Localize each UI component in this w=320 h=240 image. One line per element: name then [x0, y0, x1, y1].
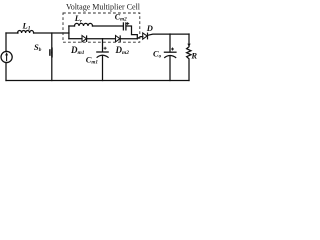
capacitor Cm2 plus sign [126, 22, 129, 25]
diode Dm1 [82, 35, 87, 42]
wire: left rail lower [5, 63, 7, 81]
diode Dm2 [116, 35, 121, 42]
transistor Sb arrow [51, 51, 53, 54]
wire: bottom rail [6, 80, 189, 82]
svg-text:R: R [190, 51, 197, 61]
svg-text:Lr: Lr [74, 13, 83, 24]
wire: right rail upper [188, 34, 190, 44]
transistor Sb gate bar [50, 48, 52, 58]
inductor Lr [75, 23, 93, 26]
wire: Cm1 branch lower [102, 55, 104, 80]
capacitor Co plus sign [171, 48, 174, 51]
wire: Co branch lower [169, 56, 171, 81]
wire: cell top branch lead [69, 25, 75, 27]
wire: left rail upper [5, 33, 7, 52]
current source arrow [5, 52, 8, 61]
svg-text:Cm1: Cm1 [86, 54, 99, 65]
svg-text:L1: L1 [22, 20, 31, 31]
wire: Cm2 right to corner, down to middle branch [126, 26, 137, 39]
svg-text:D: D [146, 23, 153, 33]
svg-text:Voltage Multiplier Cell: Voltage Multiplier Cell [66, 3, 141, 12]
wire: middle branch left [69, 38, 82, 40]
dashed box: voltage multiplier cell boundary [63, 13, 140, 42]
capacitor Cm1 plates [96, 52, 109, 58]
wire: top rail from source to switch node [6, 32, 18, 34]
svg-text:Co: Co [153, 49, 162, 60]
diode D [143, 33, 148, 40]
wire: Cm1 branch upper [102, 39, 104, 52]
wire: diode D to output run [148, 34, 189, 35]
svg-text:Dm2: Dm2 [115, 45, 130, 56]
wire: Co branch upper [169, 34, 171, 52]
wire: middle branch Dm1 to Dm2 [87, 38, 116, 40]
capacitor Co plates [164, 52, 177, 58]
capacitor Cm2 plates [123, 22, 126, 30]
wire: cell exit to diode D [137, 37, 143, 39]
wire: Lr to Cm2 [93, 25, 123, 27]
wire: middle branch Dm2 to junction [121, 38, 138, 40]
svg-text:Dm1: Dm1 [70, 45, 85, 56]
arrow on right rail above R [187, 44, 190, 48]
svg-text:Sb: Sb [34, 42, 42, 53]
current source circle [1, 51, 12, 62]
wire: top rail L1 to multiplier cell [34, 32, 69, 34]
svg-text:Cm2: Cm2 [115, 12, 127, 22]
capacitor Cm1 plus sign [104, 47, 107, 50]
resistor R zigzag [187, 47, 191, 81]
wire: cell left connector [68, 26, 70, 39]
inductor L1 [18, 30, 34, 33]
wire: switch branch [51, 33, 53, 81]
